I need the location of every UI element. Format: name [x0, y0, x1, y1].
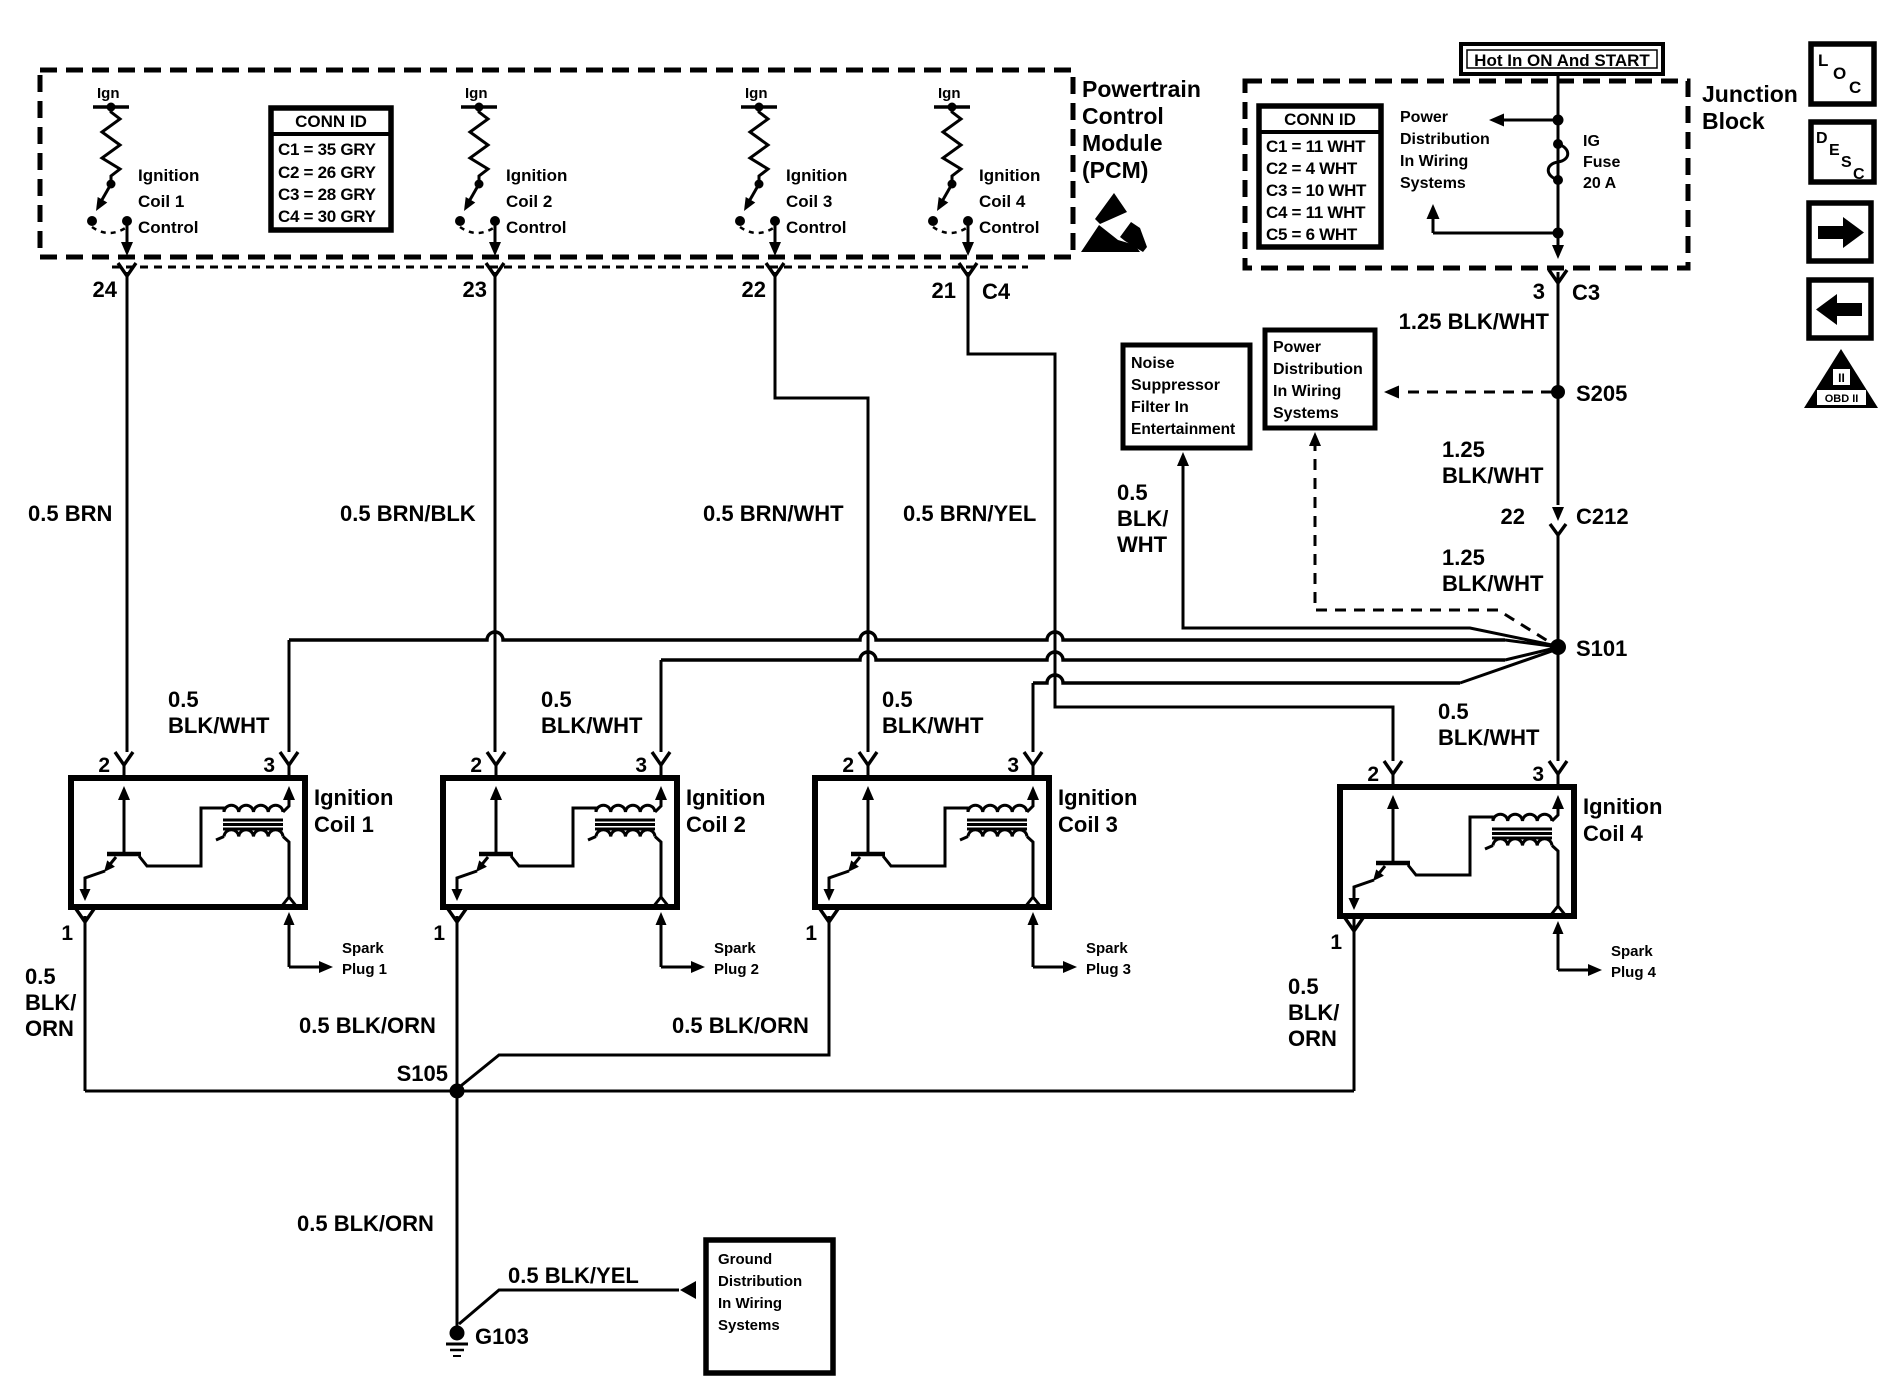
- svg-text:Control: Control: [979, 218, 1039, 237]
- svg-text:2: 2: [1367, 763, 1379, 786]
- coil 1 control input arrow (pin 2): [123, 794, 126, 854]
- DESC icon: [1811, 122, 1874, 182]
- svg-text:Plug 4: Plug 4: [1611, 964, 1657, 981]
- switch contacts: [455, 216, 465, 226]
- svg-text:Hot In ON And START: Hot In ON And START: [1474, 51, 1650, 70]
- svg-text:Plug 2: Plug 2: [714, 961, 759, 978]
- svg-text:Ign: Ign: [938, 85, 961, 102]
- svg-text:Coil 4: Coil 4: [1583, 821, 1644, 846]
- Ign supply bar node: [461, 105, 497, 109]
- transistor base wiring: [511, 808, 596, 866]
- svg-text:In Wiring: In Wiring: [1273, 383, 1341, 400]
- coil 1 pin 2 connector: [115, 752, 133, 765]
- svg-text:Ignition: Ignition: [1583, 794, 1662, 819]
- svg-text:0.5 BRN/YEL: 0.5 BRN/YEL: [903, 501, 1036, 526]
- wire to PCM pin: [967, 225, 970, 244]
- wire 0.5 BRN/YEL pin 21 to coil 4 pin 2: [968, 272, 1393, 761]
- svg-text:Plug 3: Plug 3: [1086, 961, 1131, 978]
- svg-text:Spark: Spark: [1611, 943, 1653, 960]
- svg-text:1.25: 1.25: [1442, 437, 1485, 462]
- svg-text:0.5 BLK/ORN: 0.5 BLK/ORN: [297, 1211, 434, 1236]
- ignition coil 2 box: [443, 778, 677, 907]
- svg-text:S205: S205: [1576, 381, 1627, 406]
- IG Fuse 20 A: [1553, 139, 1563, 149]
- splice S105: [450, 1084, 465, 1099]
- svg-text:BLK/: BLK/: [1288, 1000, 1339, 1025]
- svg-text:Spark: Spark: [342, 940, 384, 957]
- svg-text:O: O: [1833, 64, 1846, 83]
- svg-text:OBD II: OBD II: [1825, 393, 1859, 405]
- svg-text:C: C: [1853, 166, 1865, 183]
- svg-text:BLK/WHT: BLK/WHT: [1442, 463, 1544, 488]
- switch contacts: [735, 216, 745, 226]
- switch contacts: [928, 216, 938, 226]
- transformer T3 primary: [968, 805, 1027, 812]
- svg-text:Spark: Spark: [714, 940, 756, 957]
- spark plug 3 wire: [1028, 912, 1039, 925]
- svg-text:1.25 BLK/WHT: 1.25 BLK/WHT: [1399, 309, 1550, 334]
- svg-text:3: 3: [635, 754, 647, 777]
- transistor Q3: [851, 852, 885, 857]
- switch arm: [940, 184, 952, 205]
- transistor Q1: [107, 852, 141, 857]
- svg-text:Ground: Ground: [718, 1251, 772, 1268]
- svg-text:C1 = 11 WHT: C1 = 11 WHT: [1266, 137, 1366, 156]
- svg-text:Ignition: Ignition: [138, 166, 199, 185]
- splice S101: [1550, 639, 1566, 655]
- svg-text:0.5: 0.5: [541, 687, 572, 712]
- ignition coil 3 box: [815, 778, 1049, 907]
- Ign supply bar node: [93, 105, 129, 109]
- svg-text:C5 = 6 WHT: C5 = 6 WHT: [1266, 225, 1358, 244]
- svg-text:Control: Control: [138, 218, 198, 237]
- Junction Block dashed box: [1245, 81, 1688, 268]
- svg-text:0.5 BRN/WHT: 0.5 BRN/WHT: [703, 501, 844, 526]
- svg-text:Ignition: Ignition: [786, 166, 847, 185]
- svg-text:BLK/: BLK/: [25, 990, 76, 1015]
- svg-text:Ignition: Ignition: [686, 785, 765, 810]
- svg-text:Systems: Systems: [1400, 175, 1466, 192]
- PCM internal connector dashed line (C4 face): [112, 266, 1028, 269]
- ground G103: [450, 1326, 465, 1341]
- svg-text:2: 2: [470, 754, 482, 777]
- svg-text:In Wiring: In Wiring: [1400, 153, 1468, 170]
- svg-text:S: S: [1841, 154, 1852, 171]
- coil 3 pin 1 connector: [820, 909, 838, 922]
- coil 2 spark output terminal: [653, 897, 669, 907]
- wire 0.5 BLK/WHT to Noise Suppressor: [1177, 452, 1189, 466]
- coil 4 spark output terminal: [1550, 906, 1566, 916]
- svg-text:Ign: Ign: [97, 85, 120, 102]
- Noise Suppressor Filter In Entertainment box: [1123, 345, 1250, 448]
- junction node to PCM branch: [1553, 228, 1564, 239]
- transformer T3 core: [967, 819, 1027, 822]
- ignition coil 1 box: [71, 778, 305, 907]
- svg-text:C3: C3: [1572, 280, 1600, 305]
- svg-text:0.5 BRN: 0.5 BRN: [28, 501, 112, 526]
- ground bus wire from coil 3 pin 3 to S101: [1032, 683, 1035, 752]
- wire S101 to coil 4 pin 3: [1557, 647, 1560, 761]
- switch contacts: [87, 216, 97, 226]
- resistor (coil driver): [750, 109, 768, 180]
- svg-text:CONN ID: CONN ID: [295, 112, 367, 131]
- coil 1 pin 3 connector: [280, 752, 298, 765]
- svg-text:Coil 3: Coil 3: [786, 192, 832, 211]
- ground bus wire from coil 2 pin 3 to S101: [660, 660, 663, 752]
- resistor (coil driver): [102, 109, 120, 180]
- svg-text:2: 2: [842, 754, 854, 777]
- svg-text:Filter In: Filter In: [1131, 399, 1189, 416]
- svg-text:BLK/WHT: BLK/WHT: [882, 713, 984, 738]
- spark plug 1 wire: [284, 912, 295, 925]
- svg-text:22: 22: [1501, 504, 1525, 529]
- svg-text:C212: C212: [1576, 504, 1629, 529]
- svg-text:Ignition: Ignition: [314, 785, 393, 810]
- coil 4 pin 2 connector: [1384, 761, 1402, 774]
- transistor Q4: [1376, 861, 1410, 866]
- power distribution tap arrow: [1553, 115, 1564, 126]
- switch dashed throw arc: [92, 227, 127, 233]
- wire 1.25 BLK/WHT C3 to S205 to C212 to S101: [1557, 272, 1560, 505]
- switch arm: [747, 184, 759, 205]
- coil 1 pin 1 connector: [76, 909, 94, 922]
- transformer T4 primary: [1493, 814, 1552, 821]
- svg-text:Distribution: Distribution: [718, 1273, 802, 1290]
- svg-text:Ignition: Ignition: [506, 166, 567, 185]
- svg-text:Junction: Junction: [1702, 81, 1798, 107]
- resistor (coil driver): [943, 109, 961, 180]
- svg-text:Entertainment: Entertainment: [1131, 421, 1235, 438]
- Powertrain Control Module dashed box: [40, 70, 1073, 257]
- transformer T2 primary: [596, 805, 655, 812]
- svg-text:0.5 BLK/YEL: 0.5 BLK/YEL: [508, 1263, 639, 1288]
- svg-text:C3 = 28 GRY: C3 = 28 GRY: [278, 185, 377, 204]
- svg-text:3: 3: [263, 754, 275, 777]
- Junction Block CONN ID table: [1259, 106, 1381, 247]
- svg-text:Module: Module: [1082, 130, 1163, 156]
- transistor base wiring: [139, 808, 224, 866]
- spark plug 4 wire: [1553, 921, 1564, 934]
- svg-text:Systems: Systems: [718, 1317, 780, 1334]
- svg-text:Coil 4: Coil 4: [979, 192, 1026, 211]
- svg-text:G103: G103: [475, 1324, 529, 1349]
- svg-text:3: 3: [1532, 763, 1544, 786]
- Hot In ON And START box: [1461, 44, 1663, 74]
- svg-text:Coil 2: Coil 2: [686, 812, 746, 837]
- svg-text:2: 2: [98, 754, 110, 777]
- coil 4 pin 1 connector: [1345, 918, 1363, 931]
- spark plug 2 wire: [656, 912, 667, 925]
- svg-text:Ign: Ign: [465, 85, 488, 102]
- back arrow icon: [1809, 280, 1871, 338]
- switch arm: [467, 184, 479, 205]
- svg-text:Control: Control: [786, 218, 846, 237]
- svg-text:Coil 1: Coil 1: [138, 192, 184, 211]
- transformer T1 secondary: [216, 837, 224, 841]
- svg-text:0.5 BRN/BLK: 0.5 BRN/BLK: [340, 501, 476, 526]
- svg-text:0.5: 0.5: [168, 687, 199, 712]
- svg-text:0.5: 0.5: [25, 964, 56, 989]
- svg-text:3: 3: [1533, 279, 1545, 304]
- wire coil 3 pin 1 to S105: [457, 916, 829, 1089]
- ignition coil 4 box: [1340, 787, 1574, 916]
- transformer T1 core: [223, 819, 283, 822]
- transformer T1 primary: [224, 805, 283, 812]
- coil 4 control input arrow (pin 2): [1392, 803, 1395, 863]
- svg-text:II: II: [1838, 371, 1845, 385]
- svg-text:C4: C4: [982, 279, 1011, 304]
- switch dashed throw arc: [460, 227, 495, 233]
- LOC icon: [1811, 44, 1874, 104]
- Ign supply bar node: [934, 105, 970, 109]
- coil 2 pin 3 connector: [652, 752, 670, 765]
- coil 2 control input arrow (pin 2): [495, 794, 498, 854]
- wire coil 1 pin 1 to S105 bus: [84, 916, 87, 1091]
- svg-text:0.5: 0.5: [882, 687, 913, 712]
- OBD II icon: [1804, 349, 1878, 408]
- svg-text:1: 1: [61, 922, 73, 945]
- svg-text:C4 = 11 WHT: C4 = 11 WHT: [1266, 203, 1366, 222]
- svg-text:BLK/WHT: BLK/WHT: [168, 713, 270, 738]
- svg-text:(PCM): (PCM): [1082, 157, 1148, 183]
- svg-text:Power: Power: [1273, 339, 1321, 356]
- svg-text:22: 22: [742, 277, 766, 302]
- wire 0.5 BLK/YEL to Ground Distribution: [459, 1290, 679, 1324]
- wire 0.5 BRN/WHT pin 22 to coil 3 pin 2: [775, 272, 868, 752]
- wire coil 4 pin 1 to S105 bus: [1353, 916, 1356, 1091]
- svg-text:D: D: [1816, 130, 1828, 147]
- svg-text:E: E: [1829, 142, 1840, 159]
- coil 2 pin 2 connector: [487, 752, 505, 765]
- wire to PCM pin: [494, 225, 497, 244]
- svg-text:Systems: Systems: [1273, 405, 1339, 422]
- svg-text:Control: Control: [506, 218, 566, 237]
- transistor base wiring: [883, 808, 968, 866]
- svg-text:1.25: 1.25: [1442, 545, 1485, 570]
- svg-text:C4 = 30 GRY: C4 = 30 GRY: [278, 207, 377, 226]
- wire leaving junction block pin 3: [1557, 233, 1560, 246]
- coil 4 pin 3 connector: [1549, 761, 1567, 774]
- wire to PCM pin: [774, 225, 777, 244]
- switch arm: [99, 184, 111, 205]
- svg-text:Distribution: Distribution: [1400, 131, 1490, 148]
- ground bus S105: [85, 1090, 1354, 1093]
- svg-text:1: 1: [805, 922, 817, 945]
- wire 0.5 BRN/BLK pin 23 to coil 2 pin 2: [494, 272, 497, 752]
- svg-text:20 A: 20 A: [1583, 175, 1617, 192]
- transformer T2 secondary: [588, 837, 596, 841]
- svg-text:C: C: [1849, 78, 1861, 97]
- forward arrow icon: [1809, 203, 1871, 261]
- transistor base wiring: [1408, 817, 1493, 875]
- svg-text:24: 24: [93, 277, 118, 302]
- svg-text:Coil 3: Coil 3: [1058, 812, 1118, 837]
- switch dashed throw arc: [740, 227, 775, 233]
- ground bus wire from coil 1 pin 3 to S101: [288, 640, 291, 752]
- Ign supply bar node: [741, 105, 777, 109]
- svg-text:S101: S101: [1576, 636, 1627, 661]
- svg-text:WHT: WHT: [1117, 532, 1168, 557]
- splice S205: [1551, 385, 1565, 399]
- svg-text:Coil 2: Coil 2: [506, 192, 552, 211]
- svg-text:0.5 BLK/ORN: 0.5 BLK/ORN: [672, 1013, 809, 1038]
- transformer T4 core: [1492, 828, 1552, 831]
- svg-text:Suppressor: Suppressor: [1131, 377, 1220, 394]
- svg-text:In Wiring: In Wiring: [718, 1295, 782, 1312]
- Ground Distribution In Wiring Systems box: [706, 1240, 833, 1373]
- dashed arrow S205 to Power Distribution: [1400, 391, 1552, 394]
- svg-text:Noise: Noise: [1131, 355, 1175, 372]
- svg-text:Control: Control: [1082, 103, 1164, 129]
- svg-text:C2 = 26 GRY: C2 = 26 GRY: [278, 163, 377, 182]
- svg-text:1: 1: [433, 922, 445, 945]
- svg-text:BLK/WHT: BLK/WHT: [1438, 725, 1540, 750]
- transformer T3 secondary: [960, 837, 968, 841]
- PCM CONN ID table: [271, 108, 391, 230]
- dashed wire Power Distribution box to S101: [1309, 432, 1321, 446]
- svg-text:C1 = 35 GRY: C1 = 35 GRY: [278, 140, 377, 159]
- ESD sensitive device symbol: [1095, 193, 1127, 224]
- coil 3 spark output terminal: [1025, 897, 1041, 907]
- svg-text:Block: Block: [1702, 108, 1765, 134]
- svg-text:3: 3: [1007, 754, 1019, 777]
- svg-text:L: L: [1818, 51, 1828, 70]
- svg-text:0.5 BLK/ORN: 0.5 BLK/ORN: [299, 1013, 436, 1038]
- svg-text:Ign: Ign: [745, 85, 768, 102]
- coil 3 pin 3 connector: [1024, 752, 1042, 765]
- svg-text:BLK/: BLK/: [1117, 506, 1168, 531]
- transformer T2 core: [595, 819, 655, 822]
- Power Distribution In Wiring Systems box: [1265, 330, 1375, 428]
- coil 3 pin 2 connector: [859, 752, 877, 765]
- svg-text:Powertrain: Powertrain: [1082, 76, 1201, 102]
- svg-text:Power: Power: [1400, 109, 1448, 126]
- svg-text:Ignition: Ignition: [979, 166, 1040, 185]
- coil 3 control input arrow (pin 2): [867, 794, 870, 854]
- svg-text:Coil 1: Coil 1: [314, 812, 374, 837]
- svg-text:0.5: 0.5: [1288, 974, 1319, 999]
- wire coil 2 pin 1 through S105 to G103: [456, 916, 459, 1327]
- svg-text:ORN: ORN: [1288, 1026, 1337, 1051]
- resistor (coil driver): [470, 109, 488, 180]
- transformer T4 secondary: [1485, 846, 1493, 850]
- svg-text:Plug 1: Plug 1: [342, 961, 387, 978]
- svg-text:Spark: Spark: [1086, 940, 1128, 957]
- svg-text:ORN: ORN: [25, 1016, 74, 1041]
- switch dashed throw arc: [933, 227, 968, 233]
- coil 2 pin 1 connector: [448, 909, 466, 922]
- svg-text:1: 1: [1330, 931, 1342, 954]
- svg-text:BLK/WHT: BLK/WHT: [541, 713, 643, 738]
- svg-text:Ignition: Ignition: [1058, 785, 1137, 810]
- wire 0.5 BRN pin 24 to coil 1 pin 2: [126, 272, 129, 752]
- Junction Block feed wire: [1557, 74, 1560, 233]
- transistor Q2: [479, 852, 513, 857]
- svg-text:23: 23: [463, 277, 487, 302]
- coil 1 spark output terminal: [281, 897, 297, 907]
- svg-text:C3 = 10 WHT: C3 = 10 WHT: [1266, 181, 1367, 200]
- svg-text:IG: IG: [1583, 133, 1600, 150]
- svg-text:0.5: 0.5: [1117, 480, 1148, 505]
- svg-text:Fuse: Fuse: [1583, 154, 1620, 171]
- svg-text:21: 21: [932, 278, 956, 303]
- svg-text:CONN ID: CONN ID: [1284, 110, 1356, 129]
- wire to PCM pin: [126, 225, 129, 244]
- svg-text:BLK/WHT: BLK/WHT: [1442, 571, 1544, 596]
- svg-text:0.5: 0.5: [1438, 699, 1469, 724]
- connector C212 pin 22: [1552, 507, 1564, 521]
- svg-text:S105: S105: [397, 1061, 448, 1086]
- svg-text:C2 = 4 WHT: C2 = 4 WHT: [1266, 159, 1358, 178]
- svg-text:Distribution: Distribution: [1273, 361, 1363, 378]
